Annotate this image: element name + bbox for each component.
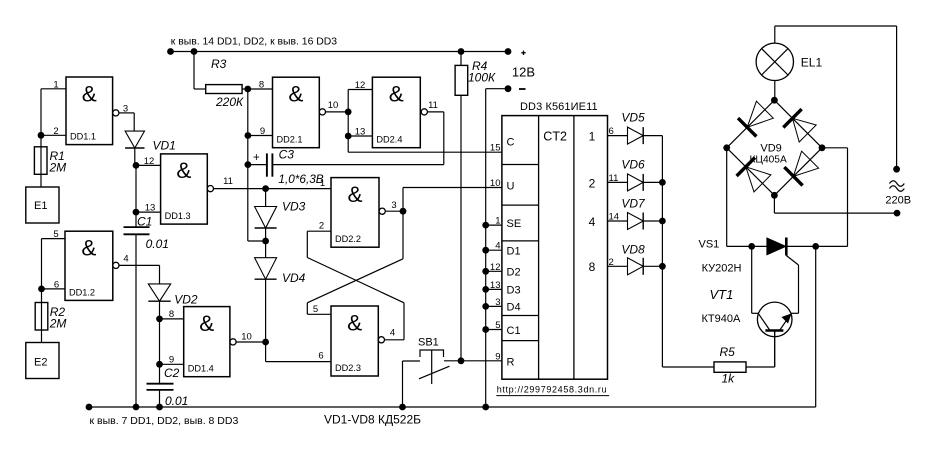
svg-text:VD9: VD9 <box>760 143 781 155</box>
svg-text:DD2.4: DD2.4 <box>376 135 402 145</box>
svg-text:10: 10 <box>328 100 339 111</box>
svg-text:E1: E1 <box>34 200 47 212</box>
svg-text:9: 9 <box>169 354 174 365</box>
svg-text:220В: 220В <box>885 195 911 207</box>
svg-text:D1: D1 <box>507 246 521 258</box>
svg-text:15: 15 <box>490 143 501 154</box>
svg-text:&: & <box>176 158 191 183</box>
svg-text:DD3 К561ИЕ11: DD3 К561ИЕ11 <box>520 101 598 113</box>
svg-text:DD1.3: DD1.3 <box>165 211 191 221</box>
svg-text:&: & <box>347 310 362 335</box>
svg-text:2: 2 <box>53 126 58 137</box>
svg-text:DD1.2: DD1.2 <box>69 287 95 297</box>
svg-text:VD3: VD3 <box>282 200 306 214</box>
svg-text:6: 6 <box>318 351 323 362</box>
svg-text:9: 9 <box>260 126 265 137</box>
svg-text:R3: R3 <box>211 57 227 71</box>
svg-text:http://299792458.3dn.ru: http://299792458.3dn.ru <box>497 385 608 395</box>
svg-text:9: 9 <box>495 351 500 362</box>
svg-text:к выв. 7 DD1, DD2, выв. 8 DD3: к выв. 7 DD1, DD2, выв. 8 DD3 <box>90 415 239 427</box>
svg-text:U: U <box>507 181 515 193</box>
svg-text:1k: 1k <box>722 372 736 386</box>
svg-text:13: 13 <box>355 126 366 137</box>
svg-text:DD2.2: DD2.2 <box>335 234 361 244</box>
svg-text:КУ202Н: КУ202Н <box>702 263 742 275</box>
svg-text:8: 8 <box>259 80 264 91</box>
svg-text:11: 11 <box>223 176 233 187</box>
svg-text:11: 11 <box>428 100 438 111</box>
svg-text:&: & <box>81 236 96 261</box>
svg-text:4: 4 <box>123 253 128 264</box>
svg-text:D3: D3 <box>507 285 521 297</box>
svg-text:КТ940А: КТ940А <box>702 313 741 325</box>
svg-text:VS1: VS1 <box>699 239 720 251</box>
svg-text:R: R <box>507 357 515 369</box>
svg-text:8: 8 <box>169 309 174 320</box>
svg-text:1: 1 <box>53 79 58 90</box>
svg-text:1: 1 <box>320 178 325 189</box>
svg-text:3: 3 <box>391 200 396 211</box>
svg-text:C2: C2 <box>164 366 180 380</box>
svg-text:SE: SE <box>507 218 522 230</box>
svg-text:D2: D2 <box>507 267 521 279</box>
svg-text:2: 2 <box>589 176 596 190</box>
svg-text:5: 5 <box>313 304 318 315</box>
svg-text:&: & <box>82 81 97 106</box>
svg-text:SB1: SB1 <box>418 337 439 349</box>
svg-text:&: & <box>288 82 303 107</box>
svg-text:&: & <box>347 182 362 207</box>
svg-text:CT2: CT2 <box>543 130 567 144</box>
svg-text:2: 2 <box>319 221 324 232</box>
svg-text:R5: R5 <box>720 345 736 359</box>
svg-text:5: 5 <box>53 229 58 240</box>
svg-text:VD6: VD6 <box>621 158 645 172</box>
svg-text:12: 12 <box>144 156 155 167</box>
svg-text:VD1: VD1 <box>153 138 176 152</box>
svg-text:4: 4 <box>589 215 596 229</box>
svg-text:220К: 220К <box>215 95 244 109</box>
svg-text:VD7: VD7 <box>621 197 646 211</box>
svg-text:10: 10 <box>490 178 501 189</box>
svg-text:&: & <box>199 311 214 336</box>
svg-text:2М: 2М <box>49 317 67 331</box>
svg-text:VT1: VT1 <box>710 287 734 302</box>
svg-text:0.01: 0.01 <box>146 237 169 251</box>
svg-text:12В: 12В <box>512 65 535 80</box>
svg-text:4: 4 <box>390 327 395 338</box>
svg-text:100К: 100К <box>468 71 496 85</box>
svg-text:DD2.1: DD2.1 <box>277 135 303 145</box>
svg-text:C: C <box>507 137 515 149</box>
svg-text:DD1.1: DD1.1 <box>70 132 96 142</box>
svg-text:10: 10 <box>241 332 252 343</box>
svg-text:VD1-VD8 КД522Б: VD1-VD8 КД522Б <box>324 413 421 427</box>
svg-text:VD4: VD4 <box>282 271 306 285</box>
svg-text:1: 1 <box>589 130 596 144</box>
svg-text:VD2: VD2 <box>174 293 198 307</box>
svg-text:DD1.4: DD1.4 <box>188 364 214 374</box>
svg-text:E2: E2 <box>34 357 47 369</box>
svg-text:8: 8 <box>589 260 596 274</box>
svg-text:EL1: EL1 <box>801 56 823 70</box>
svg-text:3: 3 <box>123 103 128 114</box>
svg-text:DD2.3: DD2.3 <box>335 363 361 373</box>
svg-text:VD5: VD5 <box>621 111 645 125</box>
svg-text:1,0*6,3В: 1,0*6,3В <box>278 172 323 186</box>
svg-text:&: & <box>389 82 404 107</box>
svg-text:6: 6 <box>54 279 59 290</box>
svg-text:VD8: VD8 <box>621 243 645 257</box>
svg-text:C3: C3 <box>279 148 295 162</box>
svg-text:13: 13 <box>145 203 156 214</box>
svg-text:D4: D4 <box>507 302 521 314</box>
svg-text:12: 12 <box>355 80 366 91</box>
svg-text:2М: 2М <box>49 161 67 175</box>
svg-text:+: + <box>253 152 260 164</box>
svg-text:0.01: 0.01 <box>165 394 188 408</box>
svg-text:к выв. 14 DD1, DD2, к выв. 16: к выв. 14 DD1, DD2, к выв. 16 DD3 <box>171 36 337 47</box>
svg-text:C1: C1 <box>507 325 521 337</box>
svg-text:КЦ405А: КЦ405А <box>750 155 787 166</box>
